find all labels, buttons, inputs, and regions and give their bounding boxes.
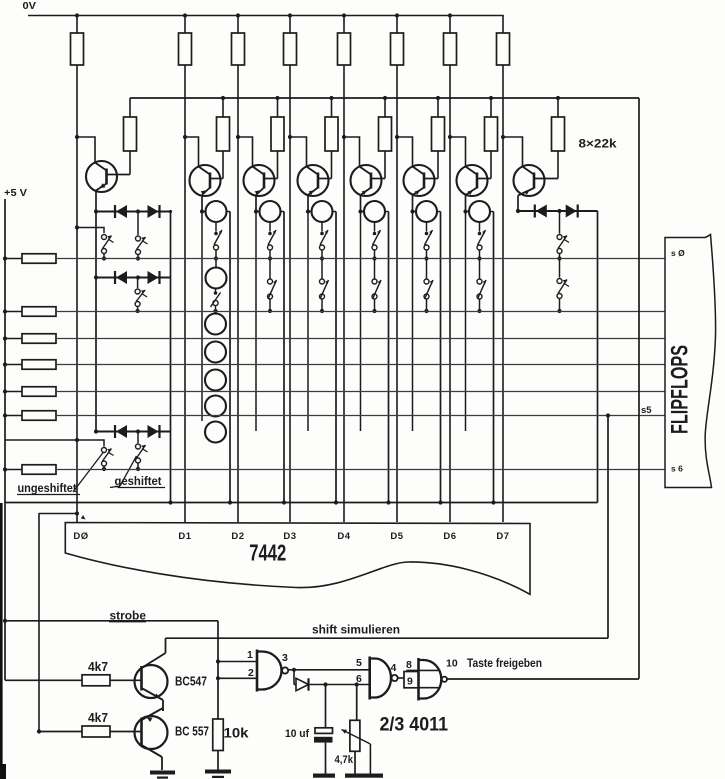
op NAND gate U1a (257, 650, 288, 692)
svg-text:6: 6 (356, 673, 362, 685)
label s0 (671, 248, 685, 258)
wire pin1 (218, 661, 257, 663)
label DØ (73, 531, 88, 542)
svg-text:Taste freigeben: Taste freigeben (467, 658, 542, 670)
key circle chain c2 (206, 259, 227, 289)
wire Q1 emitter (96, 183, 107, 211)
wire D1 column (184, 65, 186, 522)
switch key 5-2 (372, 259, 382, 314)
transistor Q1 (75, 135, 130, 192)
wire 22k stub 7 (489, 96, 493, 117)
label pin1 (247, 649, 253, 661)
label Taste freigeben (467, 658, 542, 670)
key circle y432 (205, 422, 226, 443)
resistor row 7 (3, 465, 56, 475)
svg-text:D7: D7 (496, 531, 509, 542)
diode pair row A (keys) (94, 205, 172, 218)
key circle y406 (205, 396, 226, 417)
wire 22k stub 2 (221, 96, 225, 117)
switch geshiftet (136, 444, 148, 472)
ground 10k (205, 770, 231, 779)
wire row line 6 (56, 415, 665, 417)
resistor row 1 (3, 254, 56, 264)
transistor Q6 (395, 135, 438, 196)
wire stub 0V to resistor 5 (395, 13, 399, 33)
wire emitter column 4 tail (307, 212, 309, 432)
wire Q3 emitter (255, 188, 264, 212)
wire diode to switch A2 (137, 212, 139, 236)
wire row line 4 (56, 364, 665, 366)
switch key 6-2 (424, 259, 434, 314)
wire D6 column (449, 65, 451, 522)
svg-text:BC 557: BC 557 (175, 725, 209, 739)
wire row line 1 (56, 258, 665, 260)
wire 0V rail (28, 15, 504, 17)
resistor 22k #5 (379, 117, 392, 151)
transistor Q4 (288, 135, 332, 196)
key circle column 3 top (254, 201, 284, 222)
resistor 22k #2 (217, 117, 230, 151)
diode pair row C (94, 425, 171, 438)
resistor 10k (213, 719, 249, 770)
wire s5 to shift (606, 413, 610, 638)
wire key feed (75, 225, 104, 233)
svg-text:10k: 10k (224, 725, 249, 741)
svg-text:4k7: 4k7 (88, 660, 108, 674)
wire stub 0V to resistor 6 (448, 13, 452, 33)
wire diode rowC to switch (137, 432, 139, 444)
label BC547 (175, 675, 207, 689)
wire ungeshiftet feed (5, 438, 105, 447)
wire gate2 out (398, 677, 404, 679)
svg-text:geshiftet: geshiftet (115, 474, 162, 488)
label shift simulieren (312, 625, 400, 637)
resistor 22k #7 (485, 117, 498, 151)
label BC557 (175, 725, 209, 739)
svg-text:s Ø: s Ø (671, 248, 685, 258)
wire row line 2 (56, 311, 665, 313)
svg-text:D4: D4 (337, 531, 350, 542)
transistor Q8 (501, 135, 558, 196)
ground cap (313, 774, 335, 778)
wire stub 0V to resistor 3 (288, 13, 292, 33)
diode D1 (294, 678, 370, 690)
wire stub 0V to resistor 7 (502, 16, 504, 34)
svg-text:4: 4 (391, 662, 397, 674)
switch key 7-2 (477, 259, 487, 314)
label D2 (231, 531, 244, 542)
svg-text:3: 3 (282, 652, 288, 664)
key circle y324 (205, 314, 226, 335)
svg-text:7442: 7442 (249, 540, 286, 566)
key circle column 6 top (410, 201, 440, 222)
resistor 22k #6 (432, 117, 445, 151)
capacitor 10uF (285, 685, 333, 774)
op NAND gate U1c (406, 658, 447, 701)
switch key 6-1 (424, 222, 434, 261)
switch shift A2 (136, 236, 148, 261)
transistor Q2 (183, 135, 223, 196)
wire 8x22k bus (130, 97, 639, 99)
svg-text:4k7: 4k7 (88, 711, 108, 725)
switch shift A1 (102, 234, 114, 261)
switch right 1 (557, 211, 569, 261)
switch key 4-1 (320, 222, 330, 261)
svg-text:9: 9 (407, 676, 413, 688)
resistor row 2 (3, 307, 56, 317)
resistor 22k #3 (271, 117, 284, 151)
resistor row 5 (3, 387, 56, 397)
svg-text:8: 8 (406, 659, 412, 671)
switch key 7-1 (477, 222, 487, 261)
label strobe (109, 611, 146, 623)
switch key chain (211, 289, 221, 314)
wire stub 0V to resistor 4 (342, 13, 346, 33)
wire stub 0V to resistor 1 (183, 13, 187, 33)
label 7442 (249, 540, 286, 566)
label pin5 (356, 657, 362, 669)
label s5 (641, 405, 652, 416)
potentiometer 4.7k (335, 685, 371, 774)
wire Q5 emitter (361, 188, 372, 212)
resistor 22k #4 (325, 117, 338, 151)
svg-text:BC547: BC547 (175, 675, 207, 689)
label D3 (283, 531, 296, 542)
IC flipflops box (665, 235, 716, 488)
label pin3 (282, 652, 288, 664)
label pin8 (406, 659, 412, 671)
transistor BC547 (135, 638, 168, 711)
resistor 4k7 #2 (37, 711, 142, 737)
svg-text:DØ: DØ (73, 531, 88, 542)
svg-text:2: 2 (248, 667, 254, 679)
label +5V (4, 187, 27, 199)
resistor 4k7 #1 (5, 660, 142, 686)
svg-text:+5 V: +5 V (4, 187, 27, 199)
resistor 22k #8 (552, 117, 565, 151)
resistor pull-down R6 (391, 33, 404, 65)
scan edge left (0, 503, 6, 779)
label D1 (178, 531, 191, 542)
op NAND gate U1b (370, 657, 398, 700)
wire output column 7 (491, 212, 495, 505)
wire D5 column (396, 65, 398, 522)
svg-text:2/3 4011: 2/3 4011 (380, 715, 449, 736)
label s6 (671, 464, 683, 474)
resistor pull-down R2 (179, 33, 192, 65)
wire 22k stub 1 (129, 98, 131, 117)
wire strobe (3, 619, 218, 719)
wire stub 0V to resistor 0 (75, 13, 79, 33)
switch key 4-2 (320, 259, 330, 314)
pin9 box (404, 672, 419, 688)
svg-text:FLIPFLOPS: FLIPFLOPS (667, 345, 694, 434)
key circle y380 (205, 370, 226, 391)
wire 22k stub 5 (383, 96, 387, 117)
resistor pull-down R8 (497, 33, 510, 65)
resistor 22k #1 (124, 117, 137, 151)
label pin10 (446, 658, 458, 670)
switch right 2 (557, 259, 569, 314)
wire D7 column (502, 65, 504, 522)
switch shift B (135, 289, 147, 314)
svg-text:D6: D6 (443, 531, 456, 542)
resistor pull-down R4 (284, 33, 297, 65)
label geshiftet (110, 456, 165, 488)
label 2/3 4011 (380, 715, 449, 736)
wire 22k stub 4 (329, 96, 333, 117)
label 8x22k (579, 139, 618, 151)
wire D0 takeoff (39, 511, 87, 521)
switch key 2-1 (214, 222, 224, 261)
wire Q6 emitter (413, 188, 425, 212)
label D4 (337, 531, 350, 542)
label pin2 (248, 667, 254, 679)
svg-text:1: 1 (247, 649, 253, 661)
svg-text:shift simulieren: shift simulieren (312, 625, 400, 637)
resistor row 4 (3, 360, 56, 370)
wire to 4k7-2 (38, 513, 40, 732)
wire emitter column 3 tail (255, 212, 257, 432)
svg-text:D1: D1 (178, 531, 191, 542)
wire Q8 emitter (518, 188, 534, 211)
wire stub 0V to resistor 2 (236, 13, 240, 33)
transistor BC557 (135, 708, 168, 770)
svg-text:0V: 0V (23, 0, 37, 12)
wire diode rowB to switch (137, 278, 139, 289)
wire output column 6 (438, 212, 442, 505)
label FLIPFLOPS (667, 345, 694, 434)
key circle column 7 top (463, 201, 493, 222)
wire emitter column 5 tail (360, 212, 362, 432)
wire row line 5 (56, 391, 665, 393)
diode pair right (516, 205, 598, 218)
wire Q7 emitter (466, 188, 478, 212)
wire right block output (597, 211, 599, 503)
label D6 (443, 531, 456, 542)
svg-text:8×22k: 8×22k (579, 139, 618, 151)
svg-text:10 uf: 10 uf (285, 728, 309, 740)
wire emitter column 2 tail (201, 212, 203, 422)
net 0V label (23, 0, 37, 12)
wire Taste freigeben (448, 678, 640, 680)
wire column D1-output (170, 212, 172, 503)
node nand inputs (216, 659, 220, 680)
wire pin2 (218, 677, 257, 679)
svg-text:5: 5 (356, 657, 362, 669)
wire 22k stub 6 (436, 96, 440, 117)
label pin6 (356, 673, 362, 685)
ground BC557 (150, 771, 175, 779)
wire D4 column (343, 65, 345, 522)
resistor pull-down R5 (338, 33, 351, 65)
key circle y352 (205, 342, 226, 363)
wire row line 3 (56, 338, 665, 340)
resistor row 6 (3, 411, 56, 421)
diode pair row B (94, 271, 171, 284)
wire D3 column (289, 65, 291, 522)
wire emitter column 6 tail (412, 212, 414, 432)
resistor pull-down R7 (444, 33, 457, 65)
key circle column 5 top (358, 201, 388, 222)
key circle column 4 top (306, 201, 336, 222)
svg-text:s 6: s 6 (671, 464, 683, 474)
wire output column 3 (282, 212, 286, 505)
wire 22k-bus to output (638, 98, 640, 679)
wire Q4 emitter (308, 188, 318, 212)
wire row line 7 (56, 469, 665, 471)
wire 22k stub 3 (275, 96, 279, 117)
resistor pull-down R1 (71, 33, 84, 65)
wire D0 column (76, 65, 78, 522)
wire output column 4 (334, 212, 338, 505)
wire gate1 out (289, 668, 370, 685)
wire output column 2 (228, 212, 232, 505)
wire Q2 emitter (201, 188, 210, 212)
svg-text:D2: D2 (231, 531, 244, 542)
label ungeshiftet (17, 452, 104, 495)
label pin4 (391, 662, 397, 674)
wire shift simulieren (166, 637, 609, 639)
wire 22k stub 8 (556, 96, 560, 117)
switch key 3-2 (268, 259, 278, 314)
IC 7442 box (65, 523, 530, 595)
switch key 3-1 (268, 222, 278, 261)
svg-text:10: 10 (446, 658, 458, 670)
wire emitter column 7 tail (465, 212, 467, 432)
key circle column 2 top (200, 201, 230, 222)
resistor row 3 (3, 334, 56, 344)
transistor Q5 (342, 135, 385, 196)
svg-text:4,7k: 4,7k (335, 754, 354, 766)
transistor Q7 (448, 135, 491, 196)
label D7 (496, 531, 509, 542)
wire +5V rail (4, 199, 6, 680)
wire strobe bus (5, 500, 598, 504)
label D5 (390, 531, 403, 542)
switch key 5-1 (372, 222, 382, 261)
svg-text:D5: D5 (390, 531, 403, 542)
resistor pull-down R3 (232, 33, 245, 65)
wire D2 column (237, 65, 239, 522)
wire column Q1 emitter down (95, 212, 97, 432)
wire output column 5 (386, 212, 390, 505)
transistor Q3 (236, 135, 278, 196)
svg-text:ungeshiftet: ungeshiftet (18, 481, 77, 495)
svg-text:s5: s5 (641, 405, 652, 416)
switch ungeshiftet (102, 447, 114, 471)
ground pot (345, 774, 383, 778)
